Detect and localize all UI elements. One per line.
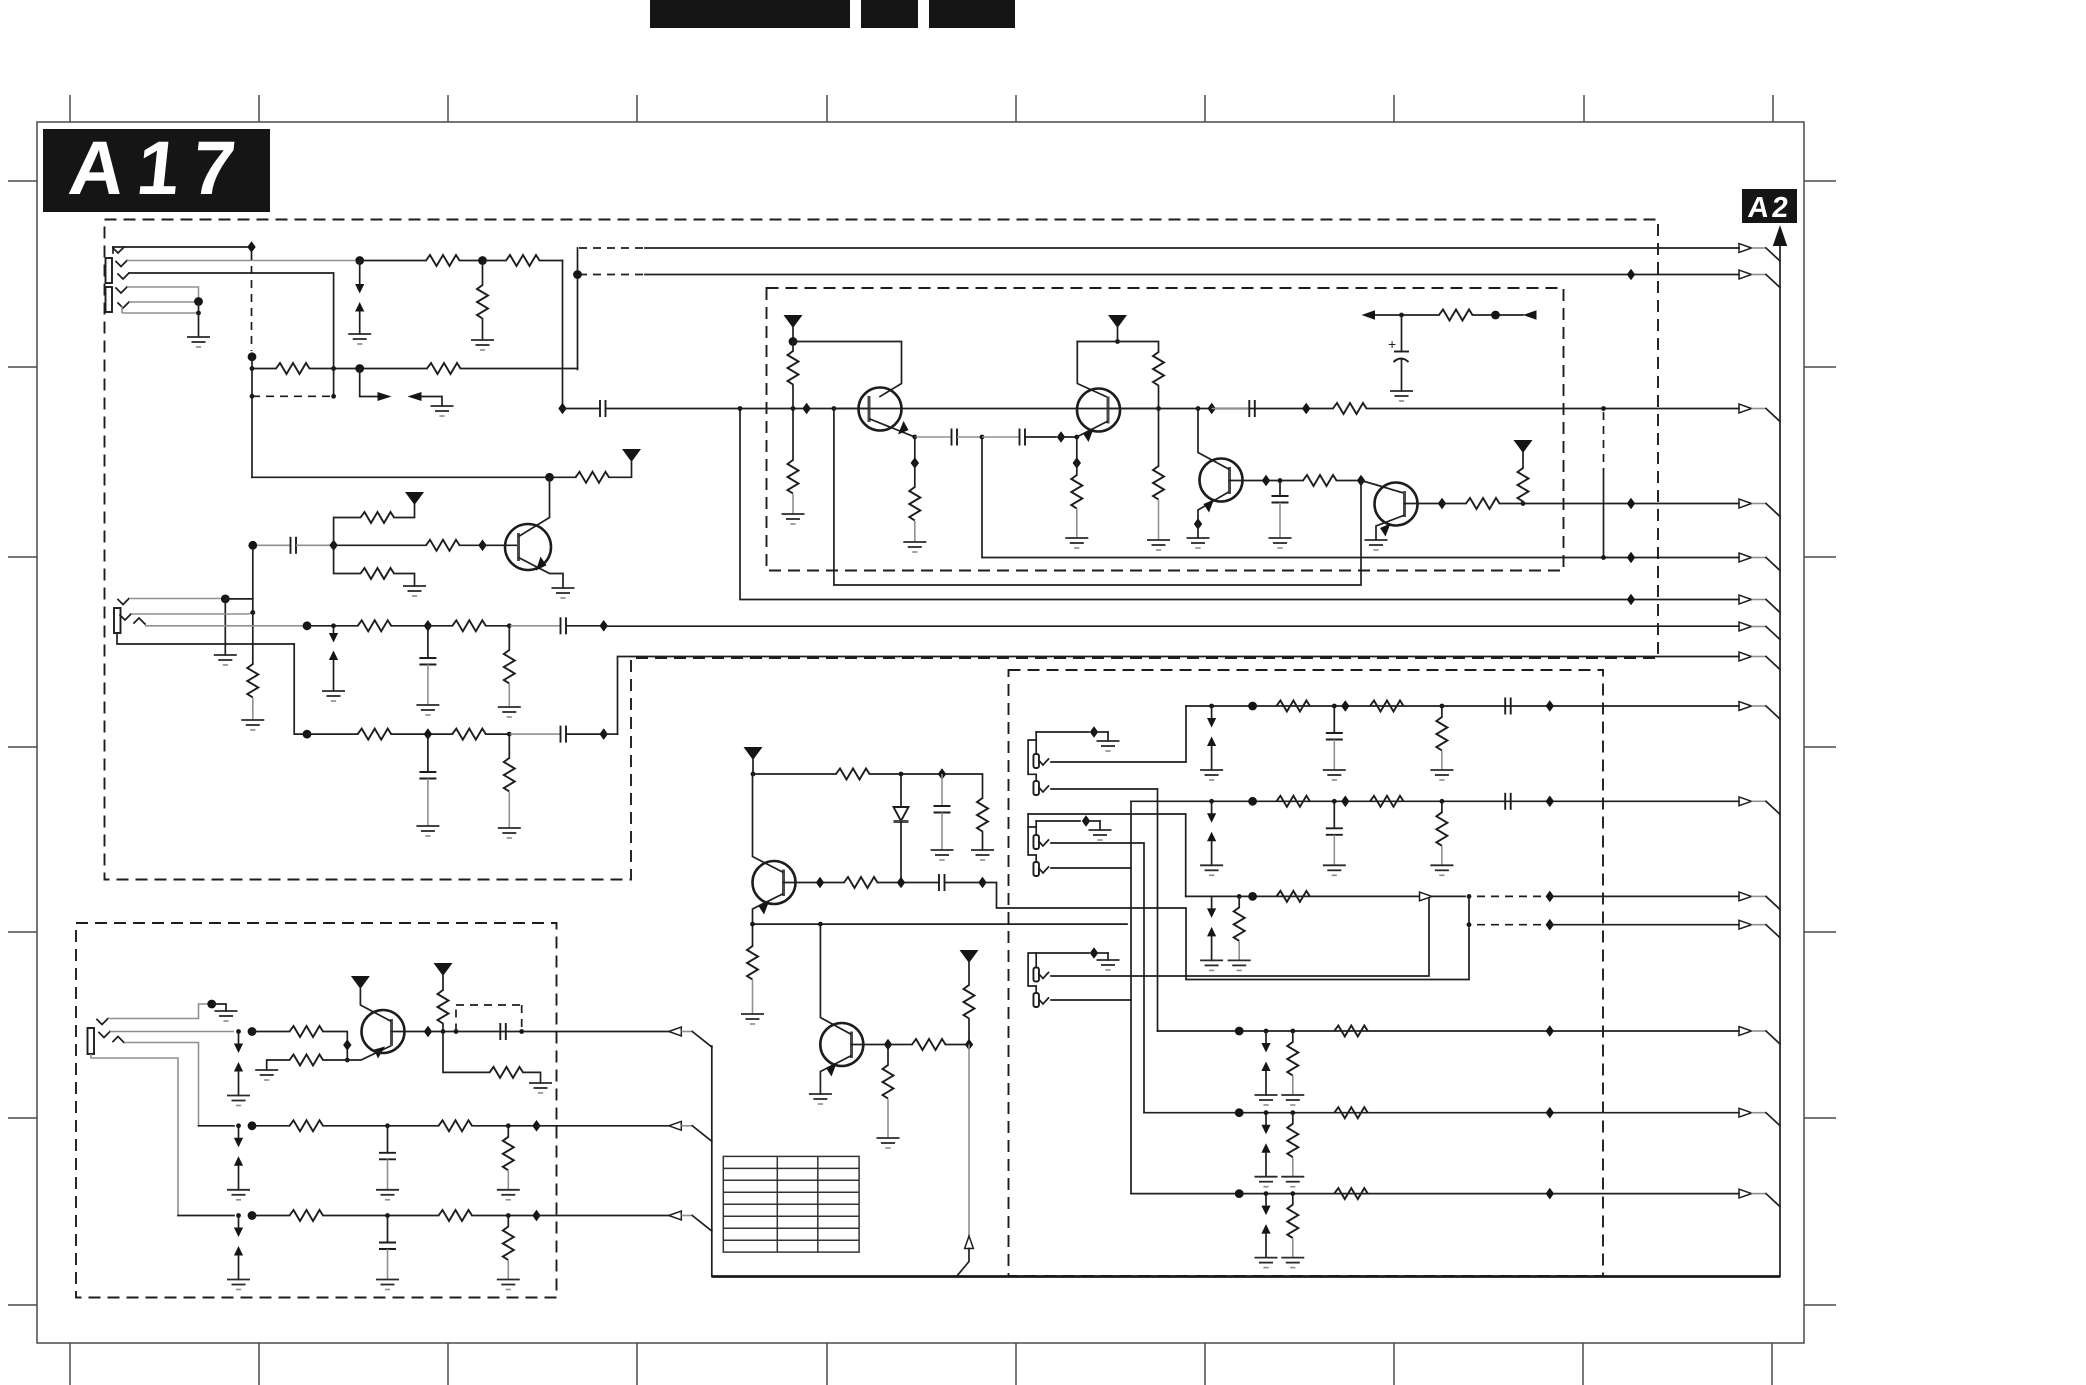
dot 253,545 [248,541,257,550]
J4 tip switch ground [108,1000,238,1021]
diamond 1442 [1438,498,1446,510]
small dot [385,1213,390,1218]
left connector bus vertical wire [711,1046,713,1277]
ground Q1 emitter [552,588,575,598]
ground at 414 [403,586,426,596]
T4 base row out [1405,498,1740,510]
diamond 482,545 [478,540,486,552]
diamond [1546,919,1554,931]
J3c tip switch ground [1036,815,1111,840]
small dot [1332,799,1337,804]
bus vertical x1131 rowB to rowG [1130,801,1132,1193]
J3b wire down to row E [1051,789,1158,1031]
connector pins to A2 bus (right edge) [1739,244,1780,1207]
resistor to ground [1228,896,1251,970]
resistor row626 a [358,620,392,631]
dashed block boundary box4 (bottom-left input) [76,923,557,1298]
T1 bias resistor upper [788,342,799,409]
power flag [1514,440,1533,453]
wire J1 row 287 [127,287,199,302]
diamond [1341,796,1349,808]
small dot 509,739 [507,732,512,737]
wire J1 row 302 [129,297,203,306]
wire J1 row 273 to bias vertical [129,273,334,369]
T2 emitter arrow [1083,429,1094,442]
small dot 509,626 [507,623,512,628]
pin arrow row 924.7 [1739,920,1752,929]
resistor [1334,1188,1368,1199]
ground [498,828,521,838]
svg-text:A17: A17 [65,126,252,211]
diamond [1546,891,1554,903]
pin arrow left row 1215.5 [669,1211,682,1220]
connector pins left-facing (bottom middle) [669,1027,712,1231]
cap [1505,793,1511,810]
bias resistor lower to ground [334,545,426,596]
shunt cap under diamond 427.9 [416,626,439,715]
resistor row478 [576,472,610,483]
power flag [434,963,453,976]
dot [1248,797,1257,806]
Q5 bias resistor to power [434,963,453,1032]
cap to ground [1323,706,1346,780]
small dot [236,1123,241,1128]
diamond [532,1210,540,1222]
net row 478 collector feed [252,449,641,483]
vertical x252 to preamp [251,396,253,477]
diamond node row247 [247,241,255,253]
power flag [351,976,370,989]
diamond [1073,457,1081,469]
interstage cap a [952,429,958,446]
resistor [1276,891,1310,902]
dot [248,1027,257,1036]
ground [529,1083,552,1093]
diamond 888 [884,1039,892,1051]
diamond on row 274.5 [1627,269,1635,281]
feedback route x834 to 1361 [834,409,1361,586]
Q5 emitter arrow [374,1047,385,1059]
diamond [1546,1025,1554,1037]
cap [1505,698,1511,715]
ground [1097,741,1120,751]
open arrow on wire [1420,892,1433,901]
open up arrow [965,1236,974,1249]
cap [500,1023,506,1040]
small dot 252,368.5 [250,366,255,371]
small dot [506,1123,511,1128]
electrolytic capacitor [1388,315,1413,401]
resistor to ground [1281,1194,1304,1268]
wire J1 sleeve row 313 [122,302,201,338]
resistor row369 a [276,363,310,374]
resistor [844,877,878,888]
diamond 1631 row503 [1627,498,1635,510]
small dot 252,396 [250,394,255,399]
T3 base shunt cap [1269,481,1292,549]
dot [1235,1027,1244,1036]
Q1 emitter arrow [536,557,547,571]
jack J3c [1033,835,1048,849]
base resistor Q1 [334,540,519,552]
ground at 442 [431,406,454,416]
redacted title bar 2 [861,0,918,28]
rail bypass cap [931,774,954,860]
electrolytic reservoir row [1362,310,1537,321]
contact pair at 333.5 [333,626,335,633]
pin arrow row 599.5 [1739,595,1752,604]
bias resistor upper to power [334,492,424,545]
jack switch contact pair at 360 [348,261,371,345]
power flag at 631 [622,449,641,462]
contact pair to ground [1255,1194,1278,1268]
pin arrow row 557.5 [1739,553,1752,562]
T2 collector load resistor [1153,352,1164,409]
Q6 base shunt resistor [877,1045,900,1149]
T1 emitter resistor [903,437,926,552]
pin arrow row 1031 [1739,1027,1752,1036]
junction dot 198,302 [194,297,203,306]
diamond 914.8,463 [911,457,919,469]
resistor [490,1067,524,1078]
net row 248 wire [578,248,1740,370]
contact pair to ground [1255,1031,1278,1105]
pin arrow row 706 [1739,702,1752,711]
diamond 1212 [1208,403,1216,415]
dot 1495.5 [1491,311,1500,320]
T1 emitter arrow [898,421,909,435]
T2 lower resistor [1147,409,1170,551]
Q7 emitter arrow [759,902,770,915]
capacitor row626 [561,617,567,634]
left arrow [1362,310,1376,319]
Q6 emitter arrow [826,1064,837,1077]
dot [519,1029,524,1034]
wire J2 row 614 [131,610,255,615]
dot 1158.5 [1156,406,1161,411]
net row C 896.4 [1186,891,1739,971]
T1 bias resistor lower [782,409,805,525]
transistor T4 [1365,483,1418,551]
resistor [1370,796,1404,807]
dot [1235,1189,1244,1198]
T1 emitter node [912,429,1079,446]
dot 793 [791,406,796,411]
diamond 427.9,626 [424,620,432,632]
transistor T3 [1187,409,1243,549]
pin arrow row 801.3 [1739,797,1752,806]
resistor R row260 b [483,255,563,266]
resistor to ground [1281,1113,1304,1187]
small dot [506,1213,511,1218]
J3a tip switch ground [1036,726,1119,751]
jack J4 body [88,1019,125,1055]
ground [498,707,521,717]
pin arrow row 896.4 [1739,892,1752,901]
dot 1401.5 [1399,313,1404,318]
small dot [236,1213,241,1218]
Q5 emitter row 1060 [255,1046,390,1080]
transistor Q1 [505,477,575,598]
pin arrow row 274.5 [1739,270,1752,279]
jack J2 hooks [118,599,129,605]
diamond 1266 [1262,475,1270,487]
cap to ground [1323,801,1346,875]
net row 599.5 wire [738,406,1739,605]
resistor 1333 [1333,403,1367,414]
capacitor row739 [561,726,567,743]
diamond 603.7,739 [600,728,608,740]
diamond 334,545 [329,540,337,552]
T2 power rail [1077,315,1158,397]
small dot 198,313 [196,311,201,316]
resistor [439,1210,473,1221]
dashed block boundary box2 (amplifier) [767,288,1564,571]
J3e tip wire to row C [1051,896,1429,976]
J3d wire to bus x1131 [1051,867,1131,869]
ground [416,826,439,836]
T2 emitter resistor [1065,437,1088,548]
pin arrow row 1193.6 [1739,1189,1752,1198]
resistor to ground [1430,706,1453,780]
small dot [1237,894,1242,899]
preamp Q1 input cap [248,537,337,613]
diamond [1090,726,1098,738]
dashed block boundary box3 (jack bank right) [1009,670,1604,1276]
dot 1198 [1196,406,1201,411]
diamond 1061,437 [1057,431,1065,443]
dot [207,1000,216,1009]
rail resistor [836,769,870,780]
diamond [424,1026,432,1038]
ground at 333.5 [322,691,345,701]
sense line with open arrow [957,1045,974,1277]
J3c wire down to row F [1051,843,1144,1113]
contact pair to ground [1200,801,1223,875]
diamond 942 [938,768,946,780]
small dot [1264,1110,1269,1115]
dot [751,772,756,777]
dot [441,1029,446,1034]
resistor [912,1039,946,1050]
diamond 562,408.5 [558,403,566,415]
shunt cap under diamond 427.9 row739 [416,734,439,836]
resistor [1334,1026,1368,1037]
diamond 820 [816,877,824,889]
small dot [1209,799,1214,804]
contact pair to ground [227,1126,250,1200]
left arrow [408,392,422,401]
ground [255,1070,278,1080]
J3f wire to bus [1051,999,1131,1001]
ground [1269,538,1292,548]
right arrow [378,392,392,401]
sheet label A17 [43,126,270,212]
right arrow [1523,310,1537,319]
dot 307,626 [303,621,312,630]
contact pair to ground [227,1032,250,1106]
dot 834 [832,406,837,411]
cap [939,874,945,891]
resistor [290,1026,324,1037]
junction dot 360,260.5 [355,256,364,265]
bottom common return wire (heavy) [712,1275,1780,1278]
coupling cap 1249 [1212,408,1250,410]
small dot [1440,704,1445,709]
contact pair to ground [227,1216,250,1290]
diamond [1082,815,1090,827]
dot [1235,1108,1244,1117]
wire J1 tip row 260.5 [127,256,364,265]
net row 408.5 main [558,400,1739,417]
wire J2 sleeve [117,633,294,644]
left edge ticks [8,181,37,1305]
dot 225,599 [221,595,230,604]
Q7 base row [784,874,1470,980]
diamond 901 [897,877,905,889]
dot Q6 collector junction [818,922,823,927]
small dot 333.6,368.5 [331,366,336,371]
Q7 emitter resistor [741,946,764,1024]
small dot [1290,1029,1295,1034]
jack bank bus wires [1028,732,1036,781]
dot 1523 [1521,501,1526,506]
dot [345,1058,350,1063]
svg-text:+: + [1388,336,1396,352]
diamond 807 [802,403,810,415]
redacted title bar 3 [929,0,1015,28]
wire J1 row 247 [113,241,256,253]
ground at 360 [348,334,371,344]
Q5 feedback resistor [443,1032,552,1094]
diode D1 [894,774,909,879]
pin arrow left row 1031.5 [669,1027,682,1036]
diamond [1546,1188,1554,1200]
dot [1248,892,1257,901]
cap to ground [376,1216,399,1290]
resistor [290,1055,324,1066]
resistor row739 b [452,729,486,740]
resistor [1370,701,1404,712]
ground [1390,391,1413,401]
junction on row 274.5 [573,270,582,279]
Q6 power flag and resistor [960,950,979,1045]
dot 252,357 [248,352,257,361]
resistor to ground [1281,1031,1304,1105]
diamond [1341,700,1349,712]
small dot [1264,1191,1269,1196]
pin arrow row 626.5 [1739,622,1752,631]
contact pair to ground [1200,706,1223,780]
diamond 427.9,739 [424,728,432,740]
cap to ground [376,1126,399,1200]
jack J3f [1033,993,1048,1007]
net row 369 [250,357,578,397]
ground [1147,540,1170,550]
transistor T2 [1077,389,1159,443]
resistor [1303,475,1337,486]
diamond [1194,518,1202,530]
small dot [1209,704,1214,709]
right edge ticks [1804,181,1836,1305]
net row 557.5 wire [982,437,1739,563]
dot 307,734 [303,730,312,739]
small dot [1467,894,1472,899]
J4 hooks [97,1019,108,1025]
shield dashed wire x252 [248,252,257,361]
dot 483,260.5 [478,256,487,265]
diamond 603.7,626 [600,620,608,632]
dot 360,368.5 [355,364,364,373]
contact pair to ground [1200,896,1223,970]
dot 1117.5,341.5 [1115,339,1120,344]
net row D 924.7 [1467,919,1739,931]
contact pair to ground [1255,1113,1278,1187]
svg-text:A2: A2 [1746,192,1792,224]
ground [1089,830,1112,840]
wire x562 vertical [562,261,564,409]
resistor [1334,1107,1368,1118]
T4 emitter arrow [1380,524,1391,537]
top edge ticks [70,95,1773,122]
transistor T1 [837,388,915,438]
dot 1603.5 [1601,406,1606,411]
jack J3a [1033,754,1048,768]
dot [1248,702,1257,711]
small dot 334,396 [331,394,336,399]
rail shunt resistor [971,798,994,860]
ground [809,1094,832,1104]
bank link to row C feed [1028,814,1186,896]
bottom edge ticks [70,1343,1772,1385]
jack J2 body [114,599,145,634]
jack J3e [1033,968,1048,982]
net row 274.5 wire [573,269,1739,281]
transistor Q5 [351,976,405,1053]
diamond [343,1039,351,1051]
interstage cap b [1020,429,1026,446]
net row 1215.5 [91,1054,669,1290]
T3 emitter arrow [1204,500,1215,513]
diamond 1361 [1357,475,1365,487]
shunt resistor under dot 509 [498,626,521,717]
sheet label A2 [1742,189,1797,224]
resistor [1276,701,1310,712]
capacitor C1 [291,537,297,554]
ground [903,542,926,552]
small dot 252,612.5 [250,610,255,615]
net row E 1031 [1158,1025,1740,1105]
jack J1 body [106,247,130,312]
small dot [1332,704,1337,709]
A2 bus vertical wire [1779,243,1781,1277]
diamond 969 [965,1039,973,1051]
pin arrow row 656.5 [1739,652,1752,661]
options table [723,1156,859,1252]
dot [248,1211,257,1220]
emitter tap row 924 [753,922,1128,927]
coupling capacitor 600 [600,400,606,417]
diamond 1306 [1302,403,1310,415]
pin arrow row 1112.7 [1739,1108,1752,1117]
wire J2 tip row 625.8 [145,617,1739,701]
jack J3d [1033,862,1048,876]
diamond [1546,700,1554,712]
second filter row 734 [294,644,617,743]
ground [1187,538,1210,548]
diamond [1546,796,1554,808]
wire J2 row 598.5 [129,595,253,666]
